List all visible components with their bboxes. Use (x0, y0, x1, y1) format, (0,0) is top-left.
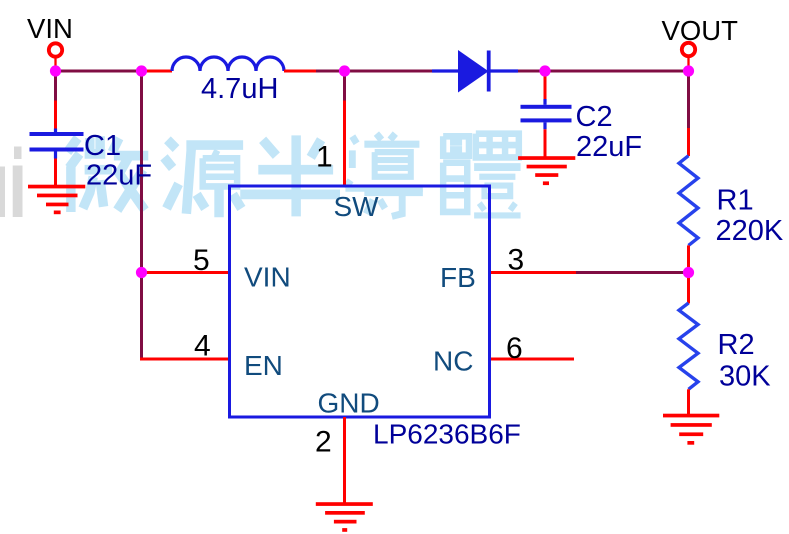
terminal VOUT circle (682, 43, 695, 56)
wire: red R1 top lead (687, 128, 690, 156)
node VOUT junction (683, 65, 694, 76)
svg-text:SW: SW (334, 191, 380, 222)
ground R2 (663, 414, 719, 445)
resistor R1 (679, 156, 698, 246)
wire: maroon node A down to EN corner (140, 271, 143, 359)
wire: maroon FB to divider node (576, 271, 690, 274)
svg-text:C2: C2 (576, 101, 613, 133)
svg-text:5: 5 (193, 244, 210, 277)
watermark (67, 134, 520, 218)
svg-text:30K: 30K (719, 361, 771, 393)
svg-text:VOUT: VOUT (662, 15, 739, 46)
wire: red C1 top lead (54, 101, 57, 130)
inductor L1 4.7uH (172, 57, 284, 71)
ground GND pin (316, 502, 373, 532)
svg-text:VIN: VIN (27, 13, 73, 44)
wire: blue diode cathode lead (491, 69, 519, 72)
wire: red stub inductor to SW node (284, 70, 316, 73)
ground C1 (28, 185, 85, 215)
svg-text:4.7uH: 4.7uH (201, 73, 278, 105)
svg-text:220K: 220K (716, 215, 784, 247)
svg-text:FB: FB (440, 262, 476, 293)
svg-text:1: 1 (316, 141, 333, 174)
node VIN junction (50, 65, 61, 76)
svg-text:2: 2 (315, 426, 332, 459)
wire: red R2 bottom lead (687, 389, 690, 416)
wire: maroon VOUT down (687, 71, 690, 128)
svg-text:R2: R2 (718, 329, 755, 361)
svg-text:22uF: 22uF (86, 160, 152, 192)
node left rail junction (136, 65, 147, 76)
op-amp/IC U1 LP6236B6F box (230, 186, 490, 417)
wire: red stub junction to inductor (141, 70, 172, 73)
terminal VIN circle (49, 43, 62, 56)
wire: red C1 bottom lead (54, 159, 57, 186)
svg-text:C1: C1 (84, 130, 121, 162)
wire: maroon SW junction down (343, 71, 346, 101)
diode D1 (458, 50, 491, 93)
watermark grey letters (0, 147, 23, 218)
ground C2 (518, 156, 575, 185)
svg-text:LP6236B6F: LP6236B6F (373, 419, 521, 450)
capacitor C2 (521, 99, 572, 129)
capacitor C1 (30, 129, 84, 159)
svg-text:GND: GND (318, 388, 380, 419)
wire: red R2 top lead (687, 273, 690, 304)
node A (VIN/EN) junction (136, 267, 147, 278)
wire: red NC pin6 wire (489, 358, 574, 361)
node C2 junction (539, 65, 550, 76)
svg-text:22uF: 22uF (576, 131, 642, 163)
wire: maroon diode to VOUT (518, 70, 690, 73)
wire: red SW pin1 wire (343, 101, 346, 187)
svg-text:6: 6 (506, 332, 523, 365)
svg-text:NC: NC (433, 346, 473, 377)
wire: red C2 bottom lead (544, 129, 547, 157)
svg-text:4: 4 (194, 330, 211, 363)
node SW junction (339, 65, 350, 76)
svg-text:R1: R1 (717, 185, 754, 217)
wire: maroon left rail down to node A (140, 71, 143, 273)
svg-text:VIN: VIN (244, 262, 291, 293)
node FB divider junction (683, 267, 694, 278)
wire: maroon VIN down to C1 (54, 71, 57, 101)
svg-text:3: 3 (508, 244, 525, 277)
wire: red pin5 wire (140, 271, 231, 274)
wire: blue diode anode lead (432, 69, 459, 72)
wire: red C2 top lead (544, 71, 547, 100)
wire: red R1 bottom lead (687, 245, 690, 272)
resistor R2 (679, 303, 698, 389)
wire: red stub VOUT terminal (687, 57, 689, 72)
svg-text:EN: EN (244, 350, 283, 381)
wire: red FB pin3 wire (489, 271, 576, 274)
wire: red GND pin2 wire (343, 417, 346, 504)
wire: VIN node top horizontal (maroon) (54, 70, 143, 73)
wire: red stub VIN terminal (54, 57, 56, 71)
wire: red pin4 EN wire (140, 358, 231, 361)
wire: maroon SW node horizontal (316, 70, 432, 73)
